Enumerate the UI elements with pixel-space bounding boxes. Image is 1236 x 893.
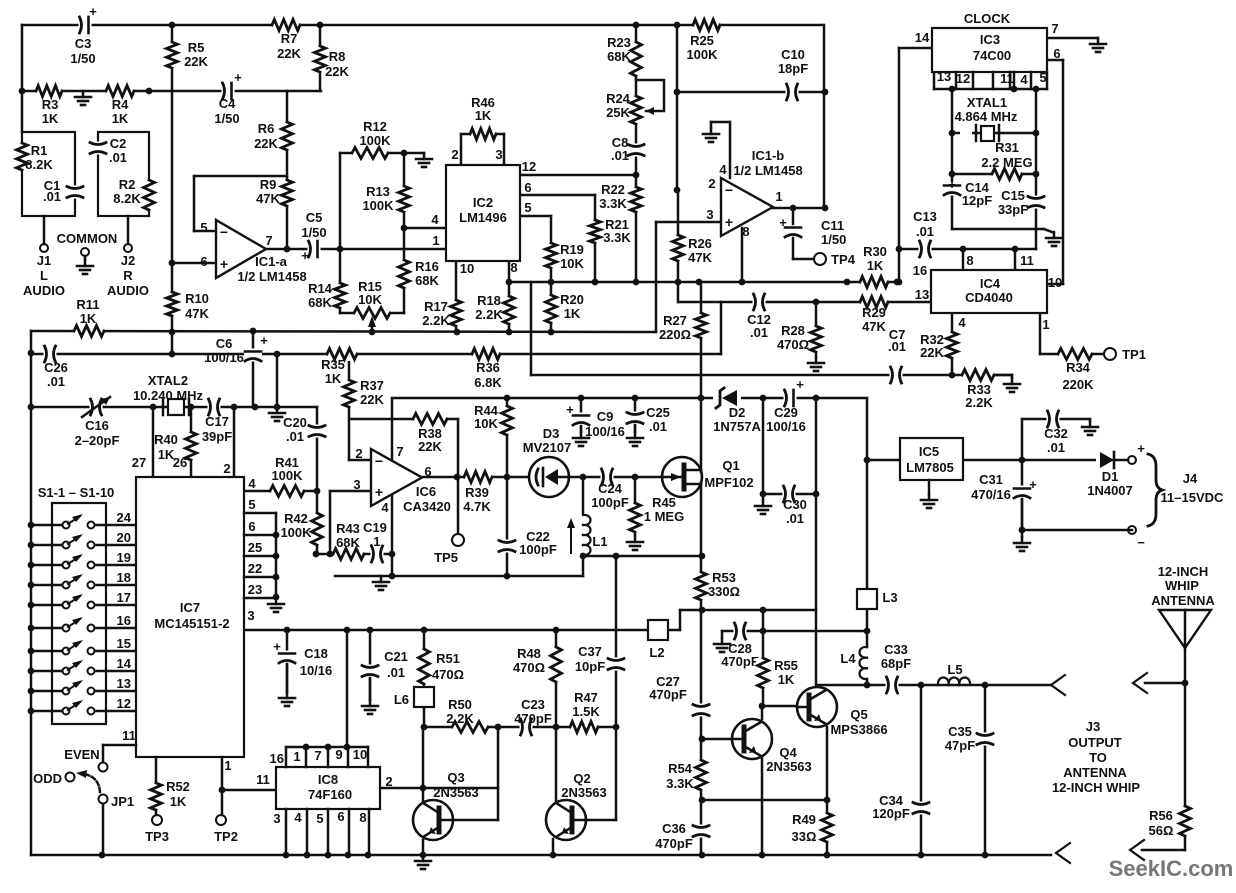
- svg-text:6: 6: [200, 254, 207, 269]
- svg-text:1K: 1K: [170, 794, 187, 809]
- svg-text:AUDIO: AUDIO: [23, 283, 65, 298]
- ground at R12: [404, 152, 424, 155]
- capacitor C36: [692, 825, 710, 838]
- svg-text:13: 13: [915, 287, 929, 302]
- svg-text:3: 3: [706, 207, 713, 222]
- svg-text:3: 3: [353, 477, 360, 492]
- svg-text:J1: J1: [37, 253, 51, 268]
- wire R31 row: [952, 173, 1036, 176]
- wire J4 minus row: [1022, 529, 1132, 532]
- svg-text:24: 24: [117, 510, 132, 525]
- svg-text:−: −: [375, 453, 383, 469]
- svg-text:ANTENNA: ANTENNA: [1151, 593, 1215, 608]
- wire XTAL1 top row: [934, 88, 1047, 91]
- transistor Q5: [797, 687, 837, 727]
- wire pin8 IC2: [508, 261, 511, 332]
- svg-text:10: 10: [353, 747, 367, 762]
- resistor R44: [500, 406, 514, 435]
- wire rail y91: [22, 90, 321, 93]
- svg-text:+: +: [260, 333, 268, 348]
- svg-text:R35: R35: [321, 357, 345, 372]
- svg-text:4: 4: [958, 315, 966, 330]
- wire L1 column: [582, 477, 585, 513]
- svg-text:1K: 1K: [325, 371, 342, 386]
- resistor R16: [397, 260, 411, 288]
- svg-text:11–15VDC: 11–15VDC: [1161, 490, 1224, 505]
- resistor R47: [570, 720, 598, 734]
- svg-text:4.864 MHz: 4.864 MHz: [955, 109, 1018, 124]
- svg-text:10/16: 10/16: [300, 663, 333, 678]
- svg-text:12-INCH: 12-INCH: [1158, 564, 1209, 579]
- svg-text:1/2 LM1458: 1/2 LM1458: [237, 269, 306, 284]
- resistor R6: [280, 122, 294, 150]
- wire XTAL2 row y407: [31, 406, 317, 409]
- svg-text:R50: R50: [448, 697, 472, 712]
- capacitor C18: [278, 651, 296, 664]
- svg-text:C13: C13: [913, 209, 937, 224]
- svg-text:1K: 1K: [867, 258, 884, 273]
- svg-text:33Ω: 33Ω: [792, 829, 817, 844]
- wire C30 row: [763, 493, 816, 496]
- wire pin14 IC3: [899, 47, 932, 50]
- wire XTAL1 xtal row: [952, 132, 1036, 135]
- svg-text:8: 8: [510, 260, 517, 275]
- svg-text:+: +: [725, 214, 733, 230]
- svg-text:18: 18: [117, 570, 131, 585]
- wire R55 column: [762, 631, 765, 706]
- op-amp IC1-b: [721, 178, 773, 236]
- svg-text:IC4: IC4: [980, 276, 1001, 291]
- resistor R23: [629, 42, 643, 76]
- varactor D3: [529, 457, 569, 497]
- wire C28 row y631: [722, 630, 867, 633]
- svg-text:1/50: 1/50: [70, 51, 95, 66]
- capacitor C14: [943, 183, 961, 196]
- svg-text:XTAL2: XTAL2: [148, 373, 188, 388]
- capacitor C16 variable: [90, 398, 103, 416]
- svg-text:SeekIC.com: SeekIC.com: [1109, 856, 1234, 881]
- resistor R25: [693, 18, 720, 32]
- svg-text:R30: R30: [863, 244, 887, 259]
- resistor R37: [342, 380, 356, 407]
- capacitor C30: [783, 485, 796, 503]
- svg-text:16: 16: [270, 751, 284, 766]
- resistor R14: [333, 283, 347, 308]
- antenna arrows: [1133, 673, 1147, 693]
- svg-text:7: 7: [265, 233, 272, 248]
- wire R38 row: [349, 418, 458, 421]
- svg-text:1K: 1K: [42, 111, 59, 126]
- resistor R24 trimmer: [629, 96, 643, 124]
- wire L4 column: [866, 631, 869, 647]
- wire R51/L6 column: [423, 630, 426, 727]
- wire R35 riser: [276, 354, 279, 407]
- svg-text:CA3420: CA3420: [403, 499, 451, 514]
- wire rail y630: [244, 629, 680, 632]
- svg-text:5: 5: [524, 200, 531, 215]
- wire R15 row: [340, 312, 404, 315]
- wire C19 row y554: [316, 553, 392, 556]
- svg-text:R19: R19: [560, 242, 584, 257]
- IC1-b pin8 wire: [741, 228, 744, 282]
- svg-text:10K: 10K: [358, 292, 382, 307]
- svg-text:+: +: [1137, 441, 1145, 456]
- wire IC1-b left column: [676, 25, 679, 190]
- box C2/R2: [98, 132, 149, 216]
- svg-text:11: 11: [122, 728, 136, 743]
- svg-text:CLOCK: CLOCK: [964, 11, 1011, 26]
- svg-text:470Ω: 470Ω: [513, 660, 545, 675]
- svg-text:2–20pF: 2–20pF: [75, 433, 120, 448]
- capacitor C8: [627, 144, 645, 157]
- svg-text:R55: R55: [774, 658, 798, 673]
- svg-text:.01: .01: [47, 374, 65, 389]
- svg-text:100K: 100K: [359, 133, 391, 148]
- resistor R10: [165, 292, 179, 316]
- wire C10 row: [677, 91, 824, 94]
- resistor R52: [155, 757, 158, 783]
- svg-text:470Ω: 470Ω: [432, 667, 464, 682]
- resistor R5: [165, 42, 179, 68]
- wire IC5 output: [963, 459, 1100, 462]
- IC3 pin7 ground: [1097, 38, 1100, 44]
- svg-text:+: +: [301, 248, 309, 263]
- wire output IC6 row y477: [422, 476, 662, 479]
- IC4 box: [931, 270, 1047, 313]
- svg-text:MV2107: MV2107: [523, 440, 571, 455]
- svg-text:+: +: [779, 215, 787, 230]
- svg-text:WHIP: WHIP: [1165, 578, 1199, 593]
- svg-text:MPF102: MPF102: [704, 475, 753, 490]
- svg-text:R26: R26: [688, 236, 712, 251]
- svg-text:470pF: 470pF: [514, 711, 552, 726]
- svg-text:R9: R9: [260, 177, 277, 192]
- wire R46 loop: [460, 134, 463, 165]
- svg-text:+: +: [566, 402, 574, 417]
- svg-text:120pF: 120pF: [872, 806, 910, 821]
- inductor L2 box: [648, 620, 668, 640]
- wire y354 to y302 riser: [720, 302, 723, 354]
- svg-text:R47: R47: [574, 690, 598, 705]
- svg-text:39pF: 39pF: [202, 429, 232, 444]
- antenna symbol: [1159, 610, 1211, 648]
- svg-text:22K: 22K: [360, 392, 384, 407]
- svg-text:1K: 1K: [112, 111, 129, 126]
- inductor L4: [860, 647, 868, 658]
- svg-text:.01: .01: [43, 189, 61, 204]
- resistor R50: [452, 720, 488, 734]
- capacitor C12: [753, 293, 766, 311]
- resistor R31: [992, 167, 1022, 181]
- wire R13 column: [403, 153, 406, 313]
- svg-text:2.2K: 2.2K: [965, 395, 993, 410]
- svg-text:C10: C10: [781, 47, 805, 62]
- transistor Q4: [732, 719, 772, 759]
- svg-text:C9: C9: [597, 409, 614, 424]
- svg-text:C31: C31: [979, 472, 1003, 487]
- svg-text:4.7K: 4.7K: [463, 499, 491, 514]
- svg-text:8: 8: [359, 810, 366, 825]
- wire C6 column: [252, 331, 255, 407]
- svg-text:C26: C26: [44, 360, 68, 375]
- svg-text:R34: R34: [1066, 360, 1091, 375]
- wire C25 drop: [634, 398, 637, 432]
- capacitor C26: [44, 345, 57, 363]
- svg-text:IC1-b: IC1-b: [752, 148, 785, 163]
- wire y800 row: [702, 799, 827, 802]
- wire Q4 base row: [702, 738, 733, 741]
- svg-text:22K: 22K: [325, 64, 349, 79]
- wire C21 drop: [369, 630, 372, 700]
- svg-text:C37: C37: [578, 644, 602, 659]
- svg-text:C11: C11: [821, 218, 844, 233]
- capacitor C29: [784, 389, 797, 407]
- testpoint TP5: [452, 534, 464, 546]
- wire C29 risers: [762, 398, 765, 494]
- svg-text:6: 6: [248, 519, 255, 534]
- svg-text:68K: 68K: [415, 273, 439, 288]
- capacitor C35: [976, 733, 994, 746]
- svg-text:16: 16: [117, 613, 131, 628]
- wire C12 row y302: [678, 301, 931, 304]
- op-amp IC1-a: [216, 220, 266, 278]
- wire output IC1-a to IC2 pin1: [266, 248, 446, 251]
- svg-text:MC145151-2: MC145151-2: [154, 616, 229, 631]
- capacitor C20: [308, 425, 326, 438]
- wire x498 column: [497, 727, 500, 820]
- wire R44/C22 column: [506, 398, 509, 576]
- svg-text:L3: L3: [882, 590, 897, 605]
- wire IC8 riser: [346, 630, 349, 747]
- resistor R32: [945, 332, 959, 358]
- svg-text:2.2K: 2.2K: [446, 711, 474, 726]
- wire pin8 IC4 stub: [962, 249, 965, 270]
- wire Q2 collector: [555, 727, 558, 801]
- svg-text:10K: 10K: [474, 416, 498, 431]
- svg-text:100K: 100K: [280, 525, 312, 540]
- svg-text:R48: R48: [517, 646, 541, 661]
- svg-text:22K: 22K: [254, 136, 278, 151]
- svg-text:1K: 1K: [80, 311, 97, 326]
- wire pin3 IC6: [330, 490, 371, 493]
- wire R14 column: [339, 249, 342, 313]
- resistor R30: [860, 275, 888, 289]
- wire pin4 IC7 row: [244, 490, 317, 493]
- svg-text:R13: R13: [366, 184, 390, 199]
- svg-text:68pF: 68pF: [881, 656, 911, 671]
- svg-text:68K: 68K: [336, 535, 360, 550]
- svg-text:.01: .01: [916, 224, 934, 239]
- svg-text:R28: R28: [781, 323, 805, 338]
- svg-text:4: 4: [294, 810, 302, 825]
- svg-text:6: 6: [424, 464, 431, 479]
- connector J3 arrows: [1051, 675, 1065, 695]
- resistor R21: [588, 220, 602, 243]
- capacitor C31: [1013, 486, 1031, 499]
- svg-text:1N4007: 1N4007: [1087, 483, 1133, 498]
- resistor R3: [36, 84, 62, 98]
- svg-text:R4: R4: [112, 97, 129, 112]
- resistor R9: [280, 180, 294, 206]
- svg-text:2: 2: [223, 461, 230, 476]
- wire C26/R35 row y354: [31, 353, 721, 356]
- svg-text:R18: R18: [477, 293, 501, 308]
- svg-text:R29: R29: [862, 305, 886, 320]
- resistor R54: [694, 760, 708, 790]
- IC8 bottom stubs: [285, 809, 288, 855]
- svg-text:12-INCH WHIP: 12-INCH WHIP: [1052, 780, 1140, 795]
- crystal XTAL2: [168, 399, 184, 415]
- wire C20/R42 column: [316, 407, 319, 554]
- wire pin6 IC1-a: [172, 262, 216, 265]
- wire C33 row y685: [817, 684, 1051, 687]
- resistor R27: [694, 313, 708, 338]
- ground Q3: [422, 855, 425, 861]
- svg-text:47K: 47K: [862, 319, 886, 334]
- svg-text:IC6: IC6: [416, 484, 436, 499]
- capacitor C11: [784, 225, 802, 238]
- wire C8/R22 column: [635, 25, 638, 282]
- svg-text:.01: .01: [888, 339, 906, 354]
- svg-text:+: +: [375, 484, 383, 500]
- wire C34 column: [920, 685, 923, 855]
- resistor R28: [809, 326, 823, 352]
- svg-text:1/50: 1/50: [301, 225, 326, 240]
- wire pin2 IC7 stub: [233, 407, 236, 477]
- wire pin2 IC8 row: [380, 787, 498, 790]
- capacitor C27: [692, 704, 710, 717]
- resistor R38: [413, 412, 447, 426]
- wire C7 row y375: [531, 374, 1012, 377]
- capacitor C33: [886, 676, 899, 694]
- svg-text:47K: 47K: [185, 306, 209, 321]
- svg-text:L6: L6: [394, 692, 409, 707]
- IC2 box: [446, 165, 520, 261]
- jumper JP1: [99, 795, 108, 804]
- wire R24 loop: [636, 80, 664, 111]
- svg-text:11: 11: [1020, 253, 1034, 268]
- svg-text:R49: R49: [792, 812, 816, 827]
- svg-text:.01: .01: [109, 150, 127, 165]
- svg-text:5: 5: [1039, 70, 1046, 85]
- svg-text:5: 5: [200, 220, 207, 235]
- svg-text:.01: .01: [649, 419, 667, 434]
- svg-text:R31: R31: [995, 140, 1019, 155]
- svg-text:12pF: 12pF: [962, 193, 992, 208]
- IC3 pin stubs: [955, 72, 958, 89]
- resistor R53: [694, 572, 708, 600]
- svg-text:3: 3: [495, 147, 502, 162]
- wire Q3 emitter: [422, 840, 425, 855]
- wire R6/R9 column: [286, 91, 289, 249]
- svg-text:.01: .01: [286, 429, 304, 444]
- wire Q5 emitter: [826, 727, 829, 855]
- wire pin3 IC1-b: [656, 221, 721, 224]
- capacitor C32: [1047, 410, 1060, 428]
- svg-text:ANTENNA: ANTENNA: [1063, 765, 1127, 780]
- svg-text:R39: R39: [465, 485, 489, 500]
- capacitor C23: [520, 718, 533, 736]
- wire R37 column: [348, 354, 351, 460]
- svg-text:1/2 LM1458: 1/2 LM1458: [733, 163, 802, 178]
- svg-text:68K: 68K: [607, 49, 631, 64]
- svg-text:14: 14: [915, 30, 930, 45]
- svg-text:+: +: [948, 177, 956, 192]
- svg-text:100/16: 100/16: [766, 419, 806, 434]
- svg-text:1 MEG: 1 MEG: [644, 509, 684, 524]
- wire IC6 bottom rail: [335, 575, 583, 578]
- resistor R45: [628, 503, 642, 532]
- svg-text:.01: .01: [1047, 440, 1065, 455]
- resistor R2: [142, 180, 156, 210]
- svg-text:16: 16: [913, 263, 927, 278]
- resistor R4: [106, 84, 134, 98]
- svg-text:2: 2: [385, 774, 392, 789]
- svg-text:S1-1 – S1-10: S1-1 – S1-10: [38, 485, 115, 500]
- resistor R49: [820, 813, 834, 842]
- wire TP5 drop: [457, 477, 460, 533]
- capacitor C13: [919, 240, 932, 258]
- svg-text:C15: C15: [1001, 188, 1025, 203]
- capacitor C10: [786, 83, 799, 101]
- wire pin6 IC2: [520, 194, 595, 197]
- wire x867 column: [866, 398, 869, 589]
- wire Q3 base row: [455, 819, 498, 822]
- svg-text:1: 1: [224, 758, 231, 773]
- svg-text:2N3563: 2N3563: [433, 785, 479, 800]
- wire Q5 collector: [815, 688, 818, 691]
- svg-text:R42: R42: [284, 511, 308, 526]
- resistor R29: [860, 295, 888, 309]
- wire xtal gnd stem: [1044, 229, 1052, 232]
- svg-text:7: 7: [396, 444, 403, 459]
- wire pin6-pin10 IC3-IC4: [1047, 59, 1063, 62]
- svg-text:56Ω: 56Ω: [1149, 823, 1174, 838]
- svg-text:6.8K: 6.8K: [474, 375, 502, 390]
- svg-text:+: +: [234, 70, 242, 85]
- resistor R22: [629, 187, 643, 212]
- svg-text:25K: 25K: [606, 105, 630, 120]
- capacitor C5: [308, 240, 321, 258]
- wire y610 row: [680, 609, 816, 612]
- testpoint TP1: [1104, 348, 1116, 360]
- resistor R11: [74, 324, 104, 338]
- capacitor C6: [244, 349, 262, 362]
- resistor R1: [15, 143, 29, 170]
- svg-text:1K: 1K: [778, 672, 795, 687]
- svg-text:C20: C20: [283, 415, 307, 430]
- svg-text:C19: C19: [363, 520, 387, 535]
- svg-text:2: 2: [708, 176, 715, 191]
- svg-text:470/16: 470/16: [971, 487, 1011, 502]
- wire IC1-b right column: [823, 25, 826, 208]
- svg-text:OUTPUT: OUTPUT: [1068, 735, 1122, 750]
- jack J1: [43, 216, 46, 244]
- resistor R17: [449, 300, 463, 326]
- wire pin4 IC2: [404, 227, 446, 230]
- wire Q1/R27 column: [700, 282, 703, 472]
- svg-text:3: 3: [247, 608, 254, 623]
- svg-text:ODD: ODD: [33, 771, 62, 786]
- wire C28 gnd stem: [721, 631, 724, 638]
- svg-text:2N3563: 2N3563: [766, 759, 812, 774]
- svg-text:R14: R14: [308, 281, 333, 296]
- svg-text:23: 23: [248, 582, 262, 597]
- svg-text:100K: 100K: [271, 468, 303, 483]
- svg-text:74F160: 74F160: [308, 787, 352, 802]
- svg-text:3.3K: 3.3K: [666, 776, 694, 791]
- capacitor C25: [626, 412, 644, 425]
